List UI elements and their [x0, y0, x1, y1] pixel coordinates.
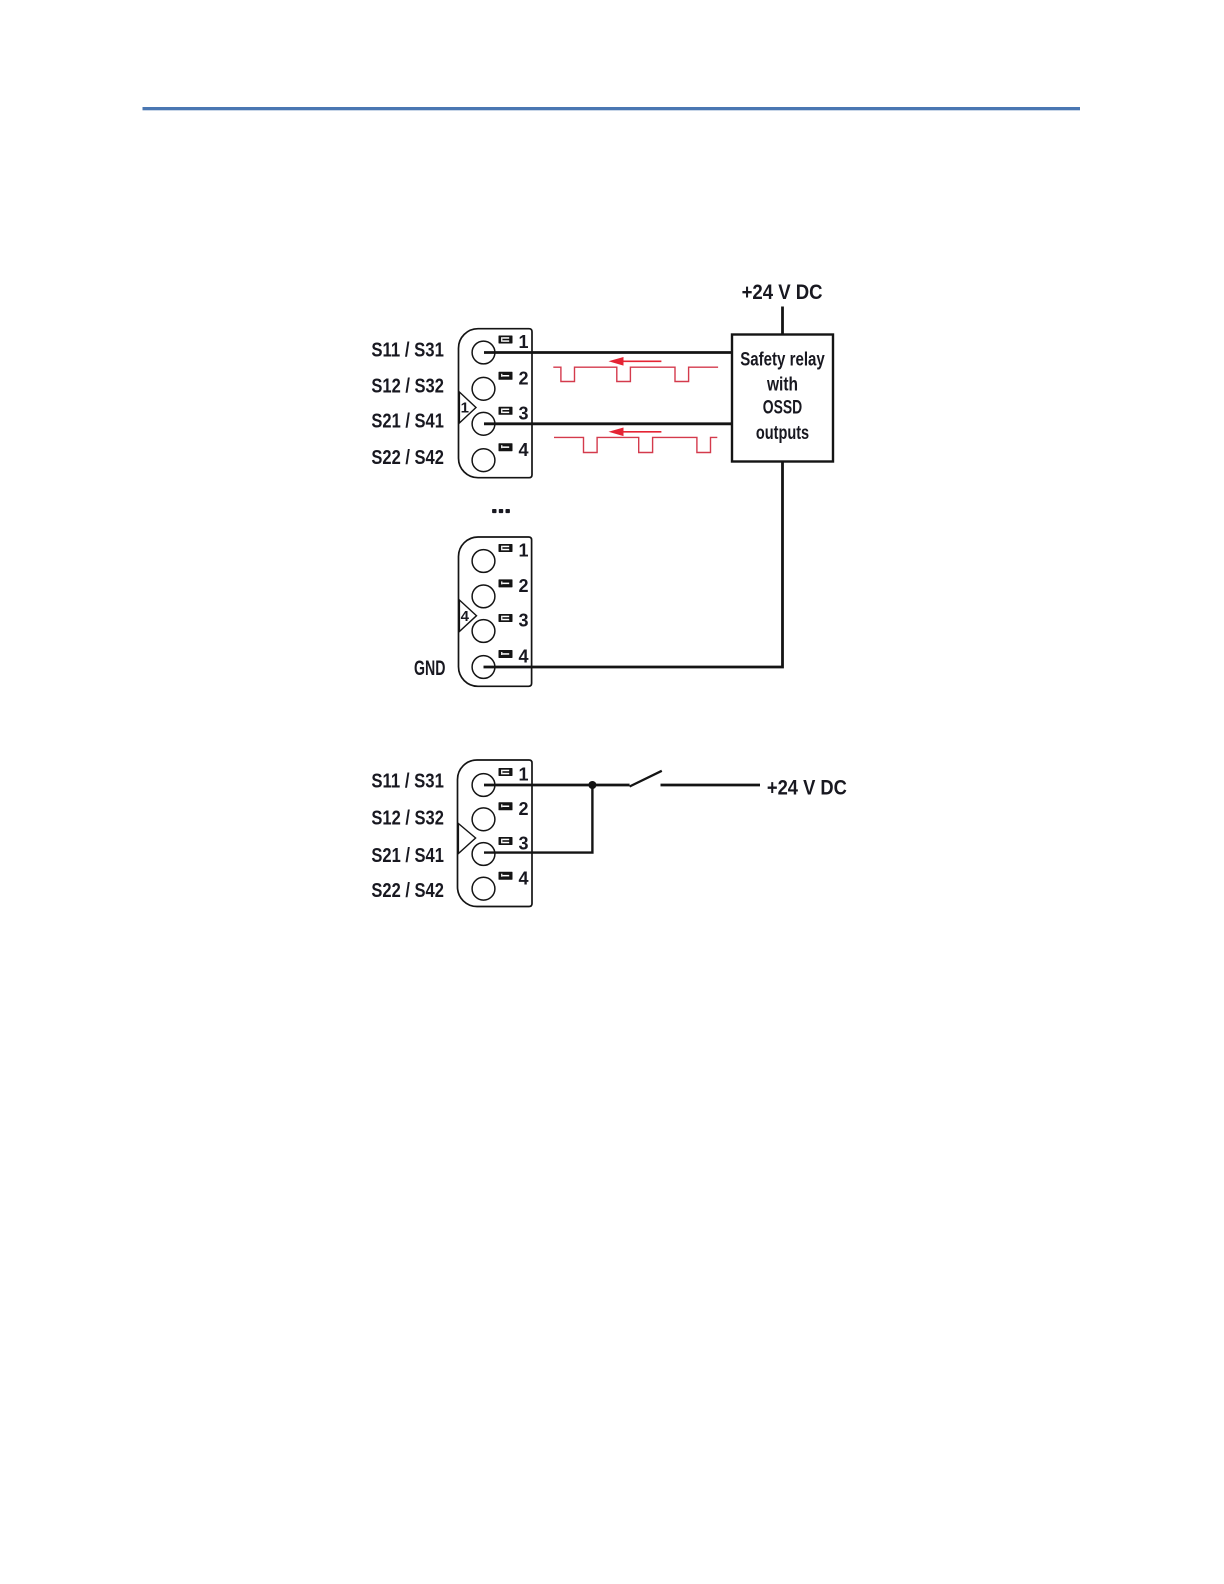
- connector J2 pin 4 circle: [472, 656, 495, 679]
- svg-text:S12 / S32: S12 / S32: [371, 807, 444, 829]
- svg-text:1: 1: [518, 541, 528, 561]
- wire relay 0V return to J2 pin 4 (GND): [484, 462, 783, 668]
- connector J1 pin 1 circle: [472, 341, 495, 364]
- connector J3 pin 1 terminal icon: [499, 768, 513, 776]
- switch S1 blade (normally open): [630, 771, 662, 787]
- svg-text:S21 / S41: S21 / S41: [371, 411, 444, 433]
- connector J1 pin 4 circle: [472, 449, 495, 472]
- header rule: [143, 107, 1081, 110]
- svg-text:2: 2: [518, 799, 528, 819]
- connector J2 pin 1 terminal icon: [499, 544, 513, 552]
- signal direction arrow 1: [609, 357, 662, 366]
- svg-text:S11 / S31: S11 / S31: [371, 339, 444, 361]
- wire +24V DC supply to safety relay: [781, 307, 784, 337]
- connector J2 outline: [459, 537, 532, 686]
- connector J1 pin 3 terminal icon: [499, 407, 513, 415]
- connector J2 keying triangle marker: [459, 600, 476, 632]
- svg-text:outputs: outputs: [756, 423, 809, 444]
- connector J3 keying triangle marker: [458, 824, 475, 854]
- wire J3 pin 1 to switch: [484, 784, 630, 787]
- connector J3 pin 3 terminal icon: [499, 837, 513, 845]
- connector J3 pin 4 circle: [472, 877, 495, 900]
- connector J2 pin 3 circle: [472, 620, 495, 643]
- connector J3 pin 4 terminal icon: [499, 872, 513, 880]
- safety relay with OSSD outputs box: [732, 335, 833, 462]
- svg-text:3: 3: [518, 611, 528, 631]
- connector J1 pin 2 terminal icon: [499, 372, 513, 380]
- connector J2 pin 1 circle: [472, 550, 495, 573]
- connector J3 pin 2 circle: [472, 808, 495, 831]
- connector J1 keying triangle marker: [459, 392, 476, 423]
- ellipsis between connectors: [492, 509, 496, 513]
- svg-text:4: 4: [518, 868, 528, 888]
- connector J3 pin 1 circle: [472, 774, 495, 797]
- connector J1 pin 2 circle: [472, 377, 495, 400]
- wire OSSD output 1 : relay to J1 pin 1: [484, 351, 732, 354]
- svg-text:2: 2: [518, 369, 528, 389]
- svg-text:1: 1: [518, 765, 528, 785]
- svg-text:4: 4: [518, 440, 528, 460]
- svg-text:Safety relay: Safety relay: [740, 350, 825, 371]
- svg-text:S22 / S42: S22 / S42: [371, 880, 444, 902]
- connector J2 pin 2 terminal icon: [499, 579, 513, 587]
- svg-text:S11 / S31: S11 / S31: [371, 771, 444, 793]
- svg-text:S22 / S42: S22 / S42: [371, 447, 444, 469]
- svg-text:+24 V DC: +24 V DC: [742, 281, 823, 304]
- junction node dot: [588, 781, 596, 789]
- connector J3 outline: [458, 760, 533, 907]
- connector J3 pin 3 circle: [472, 843, 495, 866]
- svg-text:S21 / S41: S21 / S41: [371, 845, 444, 867]
- OSSD test-pulse waveform 1: [553, 367, 718, 381]
- svg-text:3: 3: [518, 404, 528, 424]
- svg-text:OSSD: OSSD: [763, 398, 802, 419]
- svg-text:S12 / S32: S12 / S32: [371, 376, 444, 398]
- wire OSSD output 2 : relay to J1 pin 3: [484, 422, 732, 425]
- svg-text:2: 2: [518, 576, 528, 596]
- connector J1 pin 3 circle: [472, 412, 495, 435]
- connector J1 pin 4 terminal icon: [499, 443, 513, 451]
- svg-text:+24 V DC: +24 V DC: [767, 777, 847, 800]
- connector J1 pin 1 terminal icon: [499, 336, 513, 344]
- svg-text:with: with: [766, 375, 798, 396]
- connector J2 pin 3 terminal icon: [499, 614, 513, 622]
- OSSD test-pulse waveform 2: [554, 437, 717, 452]
- svg-text:1: 1: [461, 400, 469, 417]
- connector J3 pin 2 terminal icon: [499, 802, 513, 810]
- connector J2 pin 4 terminal icon: [499, 650, 513, 658]
- wire loop junction to J3 pin 3: [484, 785, 592, 853]
- connector J1 outline: [459, 329, 533, 478]
- svg-text:3: 3: [518, 834, 528, 854]
- svg-text:4: 4: [461, 608, 470, 625]
- svg-text:4: 4: [518, 647, 528, 667]
- svg-text:GND: GND: [414, 657, 445, 680]
- svg-text:1: 1: [518, 332, 528, 352]
- signal direction arrow 2: [609, 428, 662, 437]
- wire switch to +24 V DC: [661, 784, 761, 787]
- connector J2 pin 2 circle: [472, 585, 495, 608]
